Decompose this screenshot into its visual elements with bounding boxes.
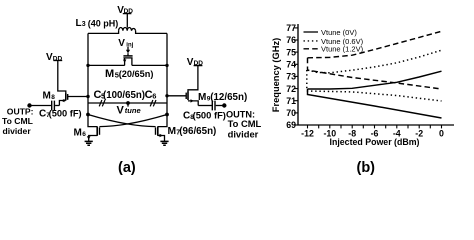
svg-text:(b): (b) xyxy=(357,160,376,176)
svg-text:75: 75 xyxy=(286,47,296,57)
svg-text:(100/65n): (100/65n) xyxy=(103,90,145,101)
svg-text:8: 8 xyxy=(51,94,55,101)
svg-text:divider: divider xyxy=(228,128,259,139)
svg-text:-12: -12 xyxy=(301,128,314,138)
svg-text:C: C xyxy=(183,111,190,122)
svg-text:M: M xyxy=(168,126,177,137)
svg-text:0: 0 xyxy=(439,128,444,138)
svg-text:3: 3 xyxy=(82,21,86,28)
svg-text:(500 fF): (500 fF) xyxy=(49,109,82,119)
svg-text:(12/65n): (12/65n) xyxy=(210,92,247,103)
svg-text:70: 70 xyxy=(286,108,296,118)
svg-text:C: C xyxy=(39,109,46,120)
svg-text:M: M xyxy=(43,91,51,102)
svg-text:(a): (a) xyxy=(118,160,136,176)
svg-text:DD: DD xyxy=(53,55,63,62)
svg-text:V: V xyxy=(118,38,125,49)
svg-text:OUTP:: OUTP: xyxy=(7,107,34,117)
svg-text:Injected Power (dBm): Injected Power (dBm) xyxy=(330,137,420,147)
svg-text:72: 72 xyxy=(286,84,296,94)
svg-text:69: 69 xyxy=(286,120,296,130)
svg-text:divider: divider xyxy=(3,126,32,136)
svg-text:74: 74 xyxy=(286,60,296,70)
svg-text:inj: inj xyxy=(126,42,133,48)
svg-text:Frequency (GHz): Frequency (GHz) xyxy=(271,38,281,112)
svg-text:M: M xyxy=(198,92,206,103)
svg-text:6: 6 xyxy=(82,131,86,138)
svg-text:DD: DD xyxy=(194,60,204,67)
svg-text:6: 6 xyxy=(152,92,156,101)
svg-text:73: 73 xyxy=(286,72,296,82)
svg-text:V: V xyxy=(117,105,125,117)
svg-text:77: 77 xyxy=(286,23,296,33)
svg-text:(40 pH): (40 pH) xyxy=(88,18,119,28)
svg-text:M: M xyxy=(74,128,82,139)
svg-text:To CML: To CML xyxy=(2,116,33,126)
svg-text:tune: tune xyxy=(125,106,141,115)
svg-text:(20/65n): (20/65n) xyxy=(119,69,154,79)
svg-text:(500 fF): (500 fF) xyxy=(193,110,226,121)
svg-text:76: 76 xyxy=(286,35,296,45)
svg-text:M: M xyxy=(105,68,114,80)
svg-text:Vtune (0V): Vtune (0V) xyxy=(321,28,357,37)
svg-text:Vtune (1.2V): Vtune (1.2V) xyxy=(321,45,364,54)
svg-text:DD: DD xyxy=(124,8,134,15)
svg-text:71: 71 xyxy=(286,96,296,106)
svg-text:(96/65n): (96/65n) xyxy=(179,126,216,137)
svg-text:L: L xyxy=(76,18,82,29)
